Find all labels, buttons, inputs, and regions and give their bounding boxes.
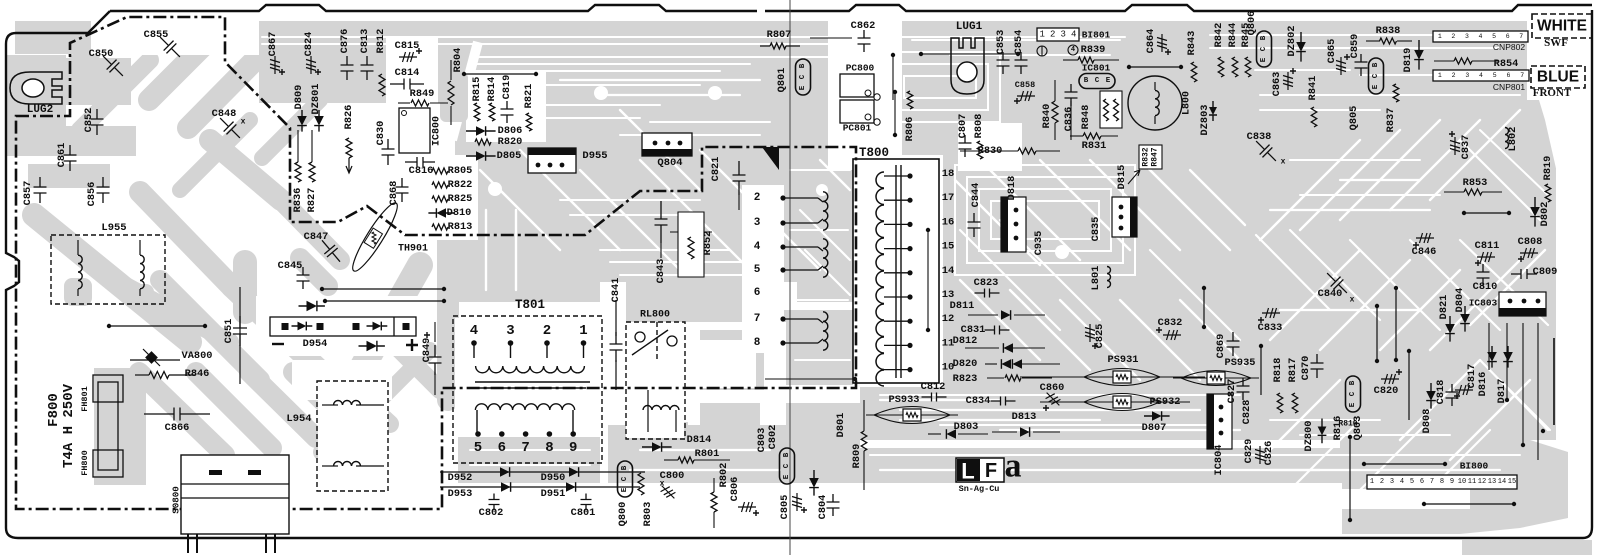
svg-text:BI800: BI800 (1460, 461, 1489, 472)
svg-text:R841: R841 (1307, 76, 1319, 101)
wire (1260, 346, 1262, 395)
svg-text:L955: L955 (101, 222, 126, 234)
wire (1013, 347, 1045, 349)
svg-text:D815: D815 (1116, 165, 1128, 190)
wire (77, 289, 79, 296)
svg-text:E: E (1260, 57, 1268, 62)
svg-text:PC801: PC801 (843, 123, 872, 134)
wire (1070, 101, 1072, 140)
wire (765, 378, 855, 380)
wire (1444, 191, 1464, 193)
svg-text:B: B (1260, 35, 1268, 40)
svg-text:IC801: IC801 (1082, 63, 1111, 74)
svg-text:C838: C838 (1247, 131, 1272, 143)
svg-text:2: 2 (1452, 72, 1456, 79)
svg-text:C855: C855 (144, 29, 169, 41)
svg-text:C854: C854 (1013, 30, 1025, 55)
svg-text:C856: C856 (86, 182, 98, 207)
svg-text:PS931: PS931 (1108, 354, 1139, 366)
svg-text:C867: C867 (267, 32, 279, 57)
svg-text:5: 5 (474, 440, 482, 456)
svg-text:R803: R803 (642, 502, 654, 527)
wire (884, 175, 910, 177)
wire (783, 197, 818, 199)
wire (713, 478, 715, 492)
svg-text:C821: C821 (710, 157, 722, 182)
svg-text:R846: R846 (185, 368, 210, 380)
svg-text:1: 1 (1438, 72, 1442, 79)
svg-text:S0800: S0800 (171, 486, 182, 514)
wire (1036, 150, 1060, 152)
svg-text:6: 6 (754, 287, 761, 299)
wire (1070, 135, 1083, 137)
svg-text:7: 7 (754, 313, 761, 325)
wire (169, 374, 195, 376)
svg-text:C865: C865 (1326, 39, 1338, 64)
svg-text:E: E (1372, 84, 1380, 89)
svg-text:4: 4 (1400, 478, 1404, 486)
wire (1397, 40, 1412, 42)
svg-text:C812: C812 (921, 381, 946, 393)
svg-text:WHITE: WHITE (1537, 18, 1587, 35)
svg-text:D801: D801 (835, 413, 847, 438)
wire (1054, 123, 1056, 140)
svg-text:14: 14 (942, 265, 955, 277)
svg-text:11: 11 (1468, 478, 1476, 486)
svg-text:C827: C827 (1226, 379, 1238, 404)
svg-text:R827: R827 (306, 188, 318, 213)
svg-text:C834: C834 (966, 395, 991, 407)
wire (632, 330, 668, 355)
svg-text:R801: R801 (695, 448, 720, 460)
svg-text:C819: C819 (501, 75, 513, 100)
svg-text:C869: C869 (1215, 334, 1227, 359)
svg-text:C823: C823 (974, 277, 999, 289)
svg-text:VA800: VA800 (182, 350, 213, 362)
wire (960, 150, 1018, 152)
svg-text:D952: D952 (448, 472, 473, 484)
svg-text:1: 1 (1438, 33, 1442, 40)
svg-text:D811: D811 (950, 300, 975, 312)
svg-text:C864: C864 (1145, 29, 1157, 54)
svg-text:8: 8 (1440, 478, 1444, 486)
wire (1522, 323, 1524, 445)
wire (1160, 401, 1190, 403)
svg-text:C833: C833 (1258, 322, 1283, 334)
svg-text:C814: C814 (395, 67, 420, 79)
svg-text:6: 6 (1506, 72, 1510, 79)
wire (884, 296, 910, 298)
svg-text:C811: C811 (1475, 240, 1500, 252)
svg-text:C: C (1095, 77, 1100, 85)
wire (1020, 376, 1082, 378)
wire (135, 374, 149, 376)
svg-text:C802: C802 (767, 425, 779, 450)
wire (615, 360, 617, 390)
svg-text:C829: C829 (1243, 439, 1255, 464)
wire (322, 465, 338, 467)
svg-text:Q805: Q805 (1348, 106, 1360, 131)
svg-text:C808: C808 (1518, 236, 1543, 248)
svg-text:IC800: IC800 (432, 116, 443, 146)
svg-text:5: 5 (1410, 478, 1414, 486)
wire (1040, 401, 1082, 403)
svg-text:R847: R847 (1151, 147, 1160, 166)
transistor Q804 (642, 133, 692, 156)
svg-text:D950: D950 (541, 472, 566, 484)
svg-text:C830: C830 (375, 121, 387, 146)
svg-text:R839: R839 (1081, 44, 1106, 56)
wire (894, 92, 896, 135)
svg-text:FRONT: FRONT (1533, 87, 1572, 99)
svg-text:5: 5 (1493, 72, 1497, 79)
svg-text:C863: C863 (1271, 72, 1283, 97)
svg-text:C: C (783, 463, 791, 468)
svg-text:T800: T800 (859, 146, 889, 160)
wire (655, 124, 760, 126)
inductor L955 dashed box (51, 235, 165, 304)
svg-text:C858: C858 (1015, 80, 1035, 90)
svg-text:4: 4 (754, 241, 761, 253)
svg-text:SWF: SWF (1544, 37, 1568, 49)
wire (1395, 288, 1397, 360)
svg-text:C850: C850 (89, 48, 114, 60)
svg-text:4: 4 (470, 323, 478, 339)
wire (1094, 59, 1119, 61)
svg-text:R826: R826 (343, 105, 355, 130)
svg-text:4: 4 (1071, 30, 1076, 40)
svg-text:16: 16 (942, 216, 955, 228)
svg-text:B: B (621, 465, 629, 470)
wire (647, 410, 649, 432)
wire (1054, 80, 1056, 101)
svg-text:R818: R818 (1272, 358, 1284, 383)
svg-text:9: 9 (1450, 478, 1454, 486)
transformer T801 dashed box (453, 316, 602, 463)
svg-text:F800: F800 (46, 393, 62, 427)
svg-text:x: x (1281, 158, 1286, 167)
svg-text:10: 10 (1458, 478, 1466, 486)
svg-text:R814: R814 (486, 77, 498, 102)
svg-text:C876: C876 (339, 29, 351, 54)
svg-text:5: 5 (754, 264, 761, 276)
svg-text:4: 4 (1071, 46, 1075, 54)
relay RL800 dashed box (626, 322, 685, 439)
svg-text:R821: R821 (523, 84, 535, 109)
wire (738, 195, 740, 210)
svg-text:L801: L801 (1090, 266, 1102, 291)
svg-text:D808: D808 (1421, 409, 1433, 434)
wire (109, 325, 205, 327)
svg-text:R836: R836 (292, 188, 304, 213)
svg-text:C: C (1372, 73, 1380, 78)
svg-text:FH801: FH801 (80, 386, 90, 412)
svg-text:B: B (1349, 380, 1357, 385)
wire (884, 320, 910, 322)
svg-text:8: 8 (754, 337, 761, 349)
wire (1506, 323, 1508, 400)
svg-text:D802: D802 (1539, 202, 1551, 227)
wire (894, 92, 896, 135)
wire (1203, 288, 1205, 327)
svg-text:C: C (621, 476, 629, 481)
wire (130, 359, 180, 361)
svg-text:C935: C935 (1033, 231, 1045, 256)
svg-text:C835: C835 (1090, 217, 1102, 242)
svg-text:R843: R843 (1186, 31, 1198, 56)
svg-text:R840: R840 (1041, 104, 1053, 129)
wire (985, 363, 997, 365)
svg-text:C841: C841 (610, 278, 622, 303)
svg-text:R845: R845 (1240, 23, 1252, 48)
svg-text:C824: C824 (303, 32, 315, 57)
svg-text:14: 14 (1498, 478, 1506, 486)
wire (475, 381, 590, 383)
svg-text:C832: C832 (1158, 317, 1183, 329)
wire (1472, 60, 1499, 62)
wire (1364, 463, 1445, 465)
svg-text:15: 15 (942, 241, 955, 253)
svg-text:3: 3 (506, 323, 514, 339)
svg-text:D812: D812 (953, 335, 978, 347)
svg-text:E: E (621, 487, 629, 492)
svg-text:7: 7 (521, 440, 529, 456)
wire (892, 55, 894, 100)
label box BLUE (1531, 66, 1585, 88)
svg-text:3: 3 (754, 217, 761, 229)
svg-text:E: E (783, 474, 791, 479)
svg-text:a: a (1005, 448, 1022, 485)
svg-text:x: x (660, 480, 665, 489)
svg-text:7: 7 (1430, 478, 1434, 486)
wire (510, 343, 512, 358)
svg-text:3: 3 (1465, 33, 1469, 40)
diode block D955 (528, 148, 576, 173)
wire (434, 372, 436, 395)
wire (647, 390, 649, 410)
svg-text:2: 2 (543, 323, 551, 339)
svg-text:RL800: RL800 (640, 310, 670, 321)
svg-text:R823: R823 (953, 373, 978, 385)
svg-text:C851: C851 (223, 319, 235, 344)
svg-text:E: E (1349, 402, 1357, 407)
wire (968, 314, 998, 316)
wire (478, 387, 586, 389)
wire (398, 102, 410, 104)
svg-text:C844: C844 (970, 183, 982, 208)
svg-text:R820: R820 (498, 136, 523, 148)
wire (1482, 191, 1502, 193)
wire (694, 459, 730, 461)
svg-text:1: 1 (579, 323, 587, 339)
svg-text:1: 1 (1370, 478, 1374, 486)
wire (430, 102, 448, 104)
svg-text:C810: C810 (1473, 281, 1498, 293)
svg-text:2: 2 (1451, 33, 1455, 40)
svg-text:D803: D803 (954, 421, 979, 433)
svg-text:E: E (799, 85, 807, 90)
wire (139, 240, 141, 255)
svg-text:C859: C859 (1349, 34, 1361, 59)
wire (1154, 116, 1156, 124)
svg-text:R807: R807 (767, 29, 792, 41)
svg-text:2: 2 (754, 192, 761, 204)
wire (1376, 306, 1378, 361)
svg-text:R848: R848 (1080, 105, 1092, 130)
svg-text:R849: R849 (410, 88, 435, 100)
svg-text:T801: T801 (515, 298, 545, 312)
inductor L954 dashed box (317, 381, 388, 491)
svg-text:D821: D821 (1438, 295, 1450, 320)
svg-text:15: 15 (1508, 478, 1516, 486)
svg-text:D951: D951 (541, 488, 566, 500)
wire (1408, 351, 1410, 420)
svg-text:R842: R842 (1213, 23, 1225, 48)
svg-text:R804: R804 (452, 48, 464, 73)
wire (1033, 431, 1060, 433)
svg-text:D814: D814 (687, 434, 712, 446)
svg-text:6: 6 (498, 440, 506, 456)
svg-text:D804: D804 (1454, 288, 1466, 313)
svg-text:R812: R812 (375, 29, 387, 54)
svg-text:R854: R854 (1494, 58, 1519, 70)
wire (1162, 376, 1205, 378)
svg-text:B: B (1084, 77, 1089, 85)
wire (810, 37, 852, 39)
wire (1424, 503, 1514, 505)
wire (992, 431, 1017, 433)
wire (473, 343, 475, 358)
wire (1542, 430, 1544, 432)
svg-text:R806: R806 (904, 117, 916, 142)
wire (783, 246, 818, 248)
wire (987, 377, 1004, 379)
svg-text:C815: C815 (395, 40, 420, 52)
wire (546, 343, 548, 358)
svg-text:C828: C828 (1241, 400, 1253, 425)
svg-text:R813: R813 (448, 221, 473, 233)
svg-text:C837: C837 (1460, 135, 1472, 160)
LFa lead-free solder logo (956, 458, 1004, 482)
svg-text:C818: C818 (1435, 380, 1447, 405)
wire (1022, 377, 1052, 379)
svg-text:13: 13 (1488, 478, 1496, 486)
wire (884, 248, 910, 250)
wire (884, 369, 910, 371)
svg-text:C: C (1260, 46, 1268, 51)
svg-text:R831: R831 (1082, 140, 1107, 152)
wire (1349, 437, 1351, 520)
wire (965, 347, 999, 349)
wire (675, 410, 677, 432)
svg-text:C820: C820 (1374, 385, 1399, 397)
svg-text:R819: R819 (1542, 156, 1554, 181)
wire (884, 272, 910, 274)
svg-text:C848: C848 (212, 108, 237, 120)
svg-text:C853: C853 (995, 30, 1007, 55)
svg-text:C806: C806 (729, 477, 741, 502)
wire (928, 433, 941, 435)
wire (1014, 314, 1045, 316)
wire (660, 243, 662, 258)
svg-text:C802: C802 (479, 507, 504, 519)
wire (77, 240, 79, 255)
svg-text:C870: C870 (1300, 356, 1312, 381)
svg-text:Q804: Q804 (657, 157, 682, 169)
svg-text:LUG2: LUG2 (27, 104, 53, 116)
svg-text:18: 18 (942, 168, 955, 180)
wire (1154, 82, 1156, 90)
svg-text:x: x (1350, 296, 1355, 305)
wire (1101, 135, 1118, 137)
svg-text:DZ801: DZ801 (310, 84, 322, 115)
wire (1129, 66, 1181, 68)
svg-text:T4A H 250V: T4A H 250V (61, 383, 77, 468)
wire (572, 410, 574, 432)
svg-text:D805: D805 (497, 150, 522, 162)
svg-text:R809: R809 (851, 444, 863, 469)
svg-text:12: 12 (1478, 478, 1486, 486)
svg-text:D954: D954 (303, 338, 328, 350)
wire (322, 288, 444, 290)
svg-text:L954: L954 (286, 413, 311, 425)
svg-text:R815: R815 (471, 77, 483, 102)
svg-text:Q800: Q800 (617, 502, 629, 527)
svg-text:C805: C805 (779, 495, 791, 520)
svg-text:1: 1 (1040, 30, 1045, 40)
svg-text:L: L (961, 459, 974, 484)
svg-text:C803: C803 (756, 428, 768, 453)
wire (325, 300, 444, 302)
svg-text:PC800: PC800 (846, 63, 875, 74)
svg-text:B: B (783, 452, 791, 457)
wire (356, 404, 384, 406)
svg-text:B: B (799, 63, 807, 68)
svg-text:R832: R832 (1142, 147, 1151, 166)
wire (884, 199, 910, 201)
svg-text:7: 7 (1520, 72, 1524, 79)
wire (884, 223, 910, 225)
svg-text:C836: C836 (1063, 107, 1075, 132)
wire (1063, 59, 1078, 61)
wire (434, 322, 436, 342)
svg-text:C809: C809 (1533, 266, 1558, 278)
svg-text:B: B (1372, 62, 1380, 67)
svg-text:D807: D807 (1142, 422, 1167, 434)
svg-text:DZ800: DZ800 (1303, 421, 1315, 452)
svg-text:R838: R838 (1376, 25, 1401, 37)
svg-text:C857: C857 (22, 181, 34, 206)
wire (713, 512, 715, 528)
svg-text:4: 4 (1479, 33, 1483, 40)
wire (583, 343, 585, 358)
wire (476, 410, 478, 432)
svg-text:R822: R822 (448, 179, 473, 191)
wire (786, 45, 800, 47)
svg-text:C840: C840 (1318, 288, 1343, 300)
svg-text:12: 12 (942, 313, 955, 325)
wire (783, 342, 818, 344)
svg-text:17: 17 (942, 192, 955, 204)
wire (664, 459, 678, 461)
svg-text:D953: D953 (448, 488, 473, 500)
svg-text:F: F (985, 460, 997, 482)
wire (1366, 40, 1380, 42)
svg-text:9: 9 (569, 440, 577, 456)
wire (450, 106, 452, 125)
svg-text:IC804: IC804 (1213, 445, 1225, 476)
svg-text:BLUE: BLUE (1537, 69, 1579, 86)
